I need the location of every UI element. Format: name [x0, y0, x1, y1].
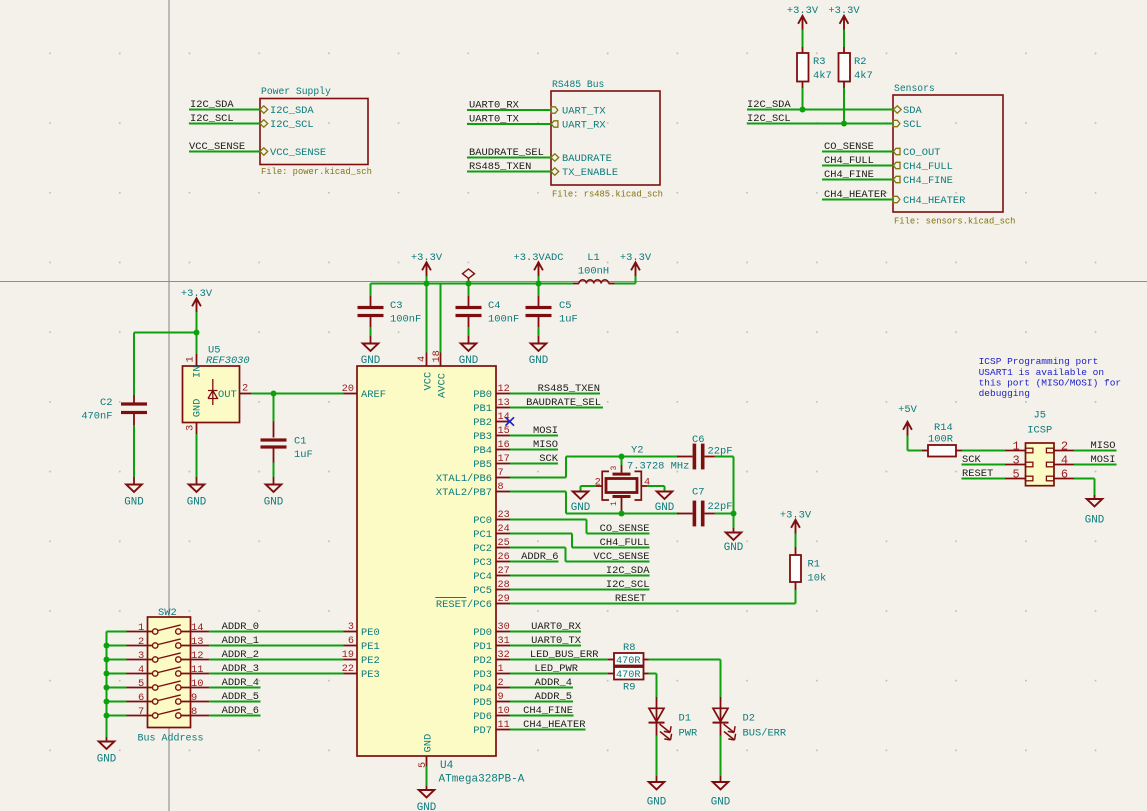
svg-text:CH4_HEATER: CH4_HEATER [523, 719, 585, 731]
axis origin lines [0, 281, 1147, 283]
wire VCC_SENSE to Power Supply [189, 151, 260, 153]
pin 28 PC5 [496, 589, 510, 591]
wire ADDR_3 [209, 673, 343, 675]
svg-text:PE2: PE2 [361, 655, 380, 667]
svg-text:PE1: PE1 [361, 641, 380, 653]
inductor L1 [573, 283, 579, 285]
pin 12 PB0 [496, 393, 510, 395]
svg-text:18: 18 [432, 350, 443, 362]
wire ADDR_6 [209, 715, 260, 717]
svg-text:ADDR_0: ADDR_0 [222, 621, 259, 633]
wire ADDR_0 [209, 631, 343, 633]
svg-text:MOSI: MOSI [1091, 454, 1116, 466]
svg-text:PC0: PC0 [473, 515, 492, 527]
svg-text:I2C_SCL: I2C_SCL [190, 113, 234, 125]
wire to GND right of C7 [733, 514, 735, 529]
junction C6/C7 right [731, 511, 737, 517]
wire ADDR_5 [209, 701, 260, 703]
wire C5 to GND [538, 327, 540, 336]
svg-text:2: 2 [138, 636, 144, 648]
svg-text:PD1: PD1 [473, 641, 492, 653]
pin 3 PE0 [344, 631, 358, 633]
svg-text:SCK: SCK [539, 453, 558, 465]
wire I2C_SCL to Power Supply [189, 123, 260, 125]
svg-text:GND: GND [711, 797, 730, 809]
wire RESET from PC6 [510, 603, 796, 605]
wire LED_PWR from PD3 [510, 673, 608, 675]
sheet pin CO_OUT [893, 148, 900, 154]
pin 23 PC0 [496, 519, 510, 521]
J5 pins 3/4 [1005, 464, 1026, 466]
svg-text:C6: C6 [692, 434, 704, 446]
svg-text:VCC_SENSE: VCC_SENSE [270, 147, 326, 159]
svg-text:C5: C5 [559, 300, 571, 312]
wire MOSI [510, 435, 558, 437]
svg-text:UART_TX: UART_TX [562, 106, 606, 118]
ground D2 [713, 782, 729, 789]
svg-text:4: 4 [1061, 454, 1068, 468]
junction flag / C4 [466, 281, 472, 287]
svg-text:CO_SENSE: CO_SENSE [600, 523, 650, 535]
pin 19 PE2 [344, 659, 358, 661]
hierarchical sheet Power Supply [260, 99, 368, 165]
pin 26 PC3 [496, 561, 510, 563]
svg-text:C4: C4 [488, 300, 500, 312]
svg-text:LED_PWR: LED_PWR [534, 663, 578, 675]
svg-text:16: 16 [498, 440, 510, 451]
wire MOSI from J5 pin4 [1074, 464, 1117, 466]
svg-text:22: 22 [342, 664, 354, 675]
capacitor C2 [133, 333, 135, 396]
svg-text:15: 15 [498, 426, 510, 437]
svg-text:C3: C3 [390, 300, 402, 312]
svg-text:1: 1 [498, 664, 504, 675]
wire SW2 bus branch [107, 701, 127, 703]
svg-text:PB0: PB0 [473, 389, 492, 401]
svg-text:5: 5 [138, 678, 144, 690]
wire XTAL1 to crystal [510, 477, 566, 479]
sheet pin CH4_FINE (sheet) [893, 176, 900, 182]
wire I2C_SCL to Sensors [747, 123, 893, 125]
hierarchical sheet RS485 Bus [551, 91, 660, 185]
wire UART0_TX from PD1 [510, 645, 581, 647]
wire R9 to D1 [649, 673, 657, 675]
svg-text:31: 31 [498, 636, 510, 647]
capacitor C5 [538, 284, 540, 297]
pin 20 AREF [344, 393, 358, 395]
wire CH4_FULL from PC1 [510, 533, 572, 535]
microcontroller U4 ATmega328PB [357, 366, 496, 756]
switch pole 3/12 ADDR_2 [127, 659, 153, 661]
svg-text:IN: IN [192, 366, 204, 378]
svg-text:RESET: RESET [962, 468, 993, 480]
wire C6 right [715, 456, 734, 458]
ground J5 [1087, 499, 1103, 506]
wire VCC_SENSE from PC2 [510, 547, 566, 549]
wire MCU GND [426, 766, 428, 786]
pin 24 PC1 [496, 533, 510, 535]
power flag diamond [463, 269, 475, 278]
svg-text:File: rs485.kicad_sch: File: rs485.kicad_sch [552, 190, 663, 200]
svg-text:R8: R8 [623, 642, 635, 654]
svg-text:C7: C7 [692, 487, 704, 499]
svg-text:RS485_TXEN: RS485_TXEN [469, 161, 531, 173]
pin 16 PB4 [496, 449, 510, 451]
svg-text:PB4: PB4 [473, 445, 492, 457]
svg-text:6: 6 [348, 636, 354, 647]
sheet pin CH4_FULL (sheet) [893, 162, 900, 168]
svg-text:CH4_FINE: CH4_FINE [903, 175, 953, 187]
pin 29 RESET/PC6 [496, 603, 510, 605]
capacitor C6 [677, 456, 693, 458]
wire C2 to GND [133, 425, 135, 477]
svg-text:12: 12 [191, 650, 203, 662]
capacitor C1 [273, 422, 275, 438]
svg-text:GND: GND [571, 502, 590, 514]
svg-text:GND: GND [422, 734, 434, 753]
svg-text:BAUDRATE_SEL: BAUDRATE_SEL [469, 147, 544, 159]
wire AVCC [440, 284, 442, 353]
svg-text:VCC_SENSE: VCC_SENSE [189, 141, 245, 153]
wire SW2 bus branch [107, 659, 127, 661]
wire crystal pin2 to GND [596, 485, 602, 487]
pin 11 PD7 [496, 729, 510, 731]
LED D1 [656, 697, 658, 736]
pin 9 PD5 [496, 701, 510, 703]
wire ADDR_1 [209, 645, 343, 647]
svg-text:PD7: PD7 [473, 725, 492, 737]
svg-text:470nF: 470nF [81, 411, 112, 423]
svg-text:28: 28 [498, 580, 510, 591]
svg-text:PD3: PD3 [473, 669, 492, 681]
wire ADDR_4 from PD4 [510, 687, 573, 689]
svg-text:PD4: PD4 [473, 683, 492, 695]
wire CH4_HEATER [822, 199, 893, 201]
svg-text:PB2: PB2 [473, 417, 492, 429]
svg-text:MOSI: MOSI [533, 425, 558, 437]
wire SW2 bus branch [107, 673, 127, 675]
svg-text:8: 8 [191, 706, 197, 718]
switch SW2 Bus Address [148, 617, 191, 728]
junction SW2 bus [104, 643, 110, 649]
wire ADDR_4 [209, 687, 260, 689]
wire UART0_RX [467, 109, 551, 111]
svg-text:ADDR_1: ADDR_1 [222, 635, 259, 647]
svg-text:D1: D1 [679, 713, 691, 725]
svg-text:GND: GND [192, 399, 204, 418]
svg-text:I2C_SDA: I2C_SDA [747, 99, 791, 111]
wire R3 bottom [802, 88, 804, 110]
wire I2C_SCL from PC5 [510, 589, 650, 591]
svg-text:this port (MISO/MOSI) for: this port (MISO/MOSI) for [979, 378, 1122, 389]
svg-text:debugging: debugging [979, 388, 1030, 399]
svg-text:PD0: PD0 [473, 627, 492, 639]
pin 4 VCC [426, 353, 428, 367]
pin 31 PD1 [496, 645, 510, 647]
connector J5 ICSP [1026, 443, 1055, 486]
junction SW2 bus [104, 699, 110, 705]
svg-text:PD2: PD2 [473, 655, 492, 667]
svg-text:SDA: SDA [903, 105, 922, 117]
junction crystal bottom [619, 511, 625, 517]
capacitor C3 [370, 284, 372, 297]
wire +3.3V power rail [371, 283, 574, 285]
svg-text:13: 13 [498, 398, 510, 409]
ground C3 [363, 344, 379, 351]
svg-text:100nF: 100nF [488, 314, 519, 326]
wire CH4_HEATER from PD7 [510, 729, 586, 731]
pin 14 PB2 [496, 421, 510, 423]
svg-text:ADDR_4: ADDR_4 [535, 677, 572, 689]
svg-text:CO_OUT: CO_OUT [903, 147, 940, 159]
junction I2C_SCL / R2 [841, 121, 847, 127]
wire UART0_TX [467, 123, 551, 125]
svg-text:PC2: PC2 [473, 543, 492, 555]
svg-text:D2: D2 [743, 713, 755, 725]
sheet pin CH4_HEATER (sheet) [893, 196, 900, 202]
wire ADDR_5 from PD5 [510, 701, 573, 703]
wire BAUDRATE_SEL from PB1 [510, 407, 603, 409]
svg-text:PD6: PD6 [473, 711, 492, 723]
svg-text:9: 9 [498, 692, 504, 703]
ground D1 [649, 782, 665, 789]
pin 5 GND bottom [426, 756, 428, 766]
sheet pin UART_RX [551, 121, 558, 127]
sheet pin I2C_SCL [260, 120, 268, 127]
svg-text:R1: R1 [808, 559, 820, 571]
wire +3.3V to U5 IN [196, 312, 198, 354]
svg-text:J5: J5 [1034, 410, 1046, 422]
svg-text:ADDR_2: ADDR_2 [222, 649, 259, 661]
svg-text:11: 11 [498, 720, 510, 731]
svg-text:C1: C1 [294, 436, 306, 448]
resistor R8 [608, 659, 614, 661]
wire crystal pin4 to GND [641, 485, 647, 487]
pin 32 PD2 [496, 659, 510, 661]
svg-text:100R: 100R [928, 434, 953, 446]
svg-text:GND: GND [97, 754, 116, 766]
wire VCC [426, 276, 428, 353]
svg-text:BAUDRATE: BAUDRATE [562, 153, 612, 165]
svg-text:I2C_SCL: I2C_SCL [270, 119, 314, 131]
svg-text:1: 1 [610, 501, 619, 506]
svg-text:ADDR_5: ADDR_5 [535, 691, 572, 703]
wire RS485_TXEN [467, 171, 551, 173]
svg-text:ADDR_6: ADDR_6 [521, 551, 558, 563]
svg-text:GND: GND [264, 497, 283, 509]
wire I2C_SDA from PC4 [510, 575, 650, 577]
svg-text:2: 2 [1061, 440, 1068, 454]
junction SW2 bus [104, 685, 110, 691]
svg-text:ADDR_4: ADDR_4 [222, 677, 259, 689]
resistor R2 [843, 47, 845, 53]
svg-text:PE3: PE3 [361, 669, 380, 681]
ground crystal left [573, 492, 589, 499]
svg-text:CH4_FULL: CH4_FULL [903, 161, 953, 173]
svg-text:6: 6 [1061, 468, 1068, 482]
svg-text:XTAL2/PB7: XTAL2/PB7 [436, 487, 492, 499]
wire CH4_FINE [822, 179, 893, 181]
pin 30 PD0 [496, 631, 510, 633]
junction SW2 bus [104, 713, 110, 719]
pin 27 PC4 [496, 575, 510, 577]
svg-text:PB1: PB1 [473, 403, 492, 415]
svg-text:1: 1 [1012, 440, 1019, 454]
svg-text:File: sensors.kicad_sch: File: sensors.kicad_sch [894, 217, 1015, 227]
svg-text:I2C_SDA: I2C_SDA [606, 565, 650, 577]
ground MCU [419, 790, 435, 797]
svg-text:23: 23 [498, 510, 510, 521]
svg-text:CH4_FULL: CH4_FULL [824, 155, 874, 167]
svg-text:3: 3 [610, 466, 619, 471]
LED D2 [720, 697, 722, 736]
svg-text:Y2: Y2 [631, 445, 643, 457]
svg-text:4: 4 [417, 356, 428, 362]
svg-text:1: 1 [138, 622, 144, 634]
svg-text:470R: 470R [616, 670, 640, 681]
svg-text:Sensors: Sensors [894, 83, 935, 94]
wire CO_SENSE from PC0 [510, 519, 587, 521]
wire BAUDRATE_SEL [467, 157, 551, 159]
svg-text:PE0: PE0 [361, 627, 380, 639]
svg-text:9: 9 [191, 692, 197, 704]
svg-text:3: 3 [185, 425, 197, 431]
junction AREF / C1 [271, 391, 277, 397]
svg-text:CH4_FINE: CH4_FINE [523, 705, 573, 717]
svg-text:7: 7 [138, 706, 144, 718]
svg-text:AREF: AREF [361, 389, 386, 401]
J5 pins 1/2 [1005, 450, 1026, 452]
svg-text:REF3030: REF3030 [206, 355, 250, 367]
svg-text:24: 24 [498, 524, 510, 535]
switch pole 7/8 ADDR_6 [127, 715, 153, 717]
svg-text:File: power.kicad_sch: File: power.kicad_sch [261, 167, 372, 177]
svg-text:2: 2 [498, 678, 504, 689]
ground crystal right [657, 492, 673, 499]
svg-text:GND: GND [187, 497, 206, 509]
resistor R14 [922, 450, 928, 452]
wire R3 top [802, 30, 804, 48]
wire MISO [510, 449, 558, 451]
svg-text:MISO: MISO [1091, 440, 1116, 452]
wire XTAL2 to crystal [510, 491, 566, 493]
svg-text:R3: R3 [813, 56, 825, 68]
svg-text:13: 13 [191, 636, 203, 648]
svg-text:PC5: PC5 [473, 585, 492, 597]
svg-text:100nF: 100nF [390, 314, 421, 326]
switch pole 4/11 ADDR_3 [127, 673, 153, 675]
svg-text:XTAL1/PB6: XTAL1/PB6 [436, 473, 492, 485]
svg-text:CH4_HEATER: CH4_HEATER [824, 189, 886, 201]
sheet pin SCL [893, 120, 900, 126]
no-connect X on PB2 [506, 417, 515, 425]
wire D2 to GND [720, 736, 722, 777]
svg-text:Power Supply: Power Supply [261, 86, 331, 97]
svg-text:PWR: PWR [679, 728, 698, 740]
svg-text:SW2: SW2 [158, 607, 177, 619]
svg-text:L1: L1 [587, 252, 599, 264]
svg-text:I2C_SCL: I2C_SCL [606, 579, 650, 591]
wire SW2 common bus [107, 631, 127, 633]
svg-text:ADDR_6: ADDR_6 [222, 705, 259, 717]
svg-text:SCK: SCK [962, 454, 981, 466]
pin 7 XTAL1/PB6 [496, 477, 510, 479]
pin 8 XTAL2/PB7 [496, 491, 510, 493]
wire CO_SENSE [822, 151, 893, 153]
wire CH4_FULL [822, 165, 893, 167]
svg-text:UART0_RX: UART0_RX [531, 621, 582, 633]
svg-text:1: 1 [185, 356, 197, 362]
svg-text:100nH: 100nH [578, 266, 609, 278]
wire SCK [510, 463, 558, 465]
switch pole 5/10 ADDR_4 [127, 687, 153, 689]
wire C3 to GND [370, 327, 372, 336]
ground C7 [726, 533, 742, 540]
svg-text:GND: GND [655, 502, 674, 514]
svg-text:RS485 Bus: RS485 Bus [552, 79, 605, 90]
ground U5 [189, 485, 205, 492]
junction +3.3V / C2 [194, 330, 200, 336]
wire CH4_FINE from PD6 [510, 715, 574, 717]
pin 13 PB1 [496, 407, 510, 409]
svg-text:TX_ENABLE: TX_ENABLE [562, 167, 618, 179]
svg-text:12: 12 [498, 384, 510, 395]
svg-text:GND: GND [417, 802, 436, 811]
junction I2C_SDA / R3 [800, 107, 806, 113]
pin 25 PC2 [496, 547, 510, 549]
svg-text:7.3728 MHz: 7.3728 MHz [627, 461, 689, 473]
sheet pin BAUDRATE [551, 154, 559, 161]
wire SW2 bus branch [107, 715, 127, 717]
switch pole 1/14 ADDR_0 [127, 631, 153, 633]
junction +3.3V / VCC [424, 281, 430, 287]
pin 3 U5 to GND [196, 422, 198, 434]
pin 2 PD4 [496, 687, 510, 689]
svg-text:GND: GND [647, 797, 666, 809]
resistor R9 [608, 673, 614, 675]
svg-text:22pF: 22pF [708, 501, 733, 513]
hierarchical sheet Sensors [893, 95, 1003, 212]
junction SW2 bus [104, 671, 110, 677]
svg-text:C2: C2 [100, 397, 112, 409]
svg-text:10k: 10k [808, 573, 827, 585]
wire MISO from J5 pin2 [1074, 450, 1117, 452]
svg-text:3: 3 [138, 650, 144, 662]
wire U5 OUT to AREF [239, 393, 251, 395]
svg-text:7: 7 [498, 468, 504, 479]
svg-text:4: 4 [138, 664, 144, 676]
svg-text:4k7: 4k7 [813, 70, 832, 82]
svg-text:ADDR_3: ADDR_3 [222, 663, 259, 675]
svg-text:14: 14 [191, 622, 203, 634]
svg-text:PC1: PC1 [473, 529, 492, 541]
svg-text:PC4: PC4 [473, 571, 492, 583]
crystal Y2 [621, 457, 623, 466]
pin 18 AVCC [440, 353, 442, 367]
svg-text:CH4_HEATER: CH4_HEATER [903, 195, 965, 207]
wire ADDR_6 from PC3 [510, 561, 559, 563]
svg-text:14: 14 [498, 412, 510, 423]
voltage regulator U5 REF3030 [196, 354, 198, 366]
wire to C2 [134, 332, 197, 334]
capacitor C7 [677, 513, 693, 515]
svg-text:26: 26 [498, 552, 510, 563]
wire UART0_RX from PD0 [510, 631, 581, 633]
ground C4 [461, 344, 477, 351]
svg-text:27: 27 [498, 566, 510, 577]
svg-text:PC3: PC3 [473, 557, 492, 569]
svg-text:UART0_RX: UART0_RX [469, 100, 520, 112]
